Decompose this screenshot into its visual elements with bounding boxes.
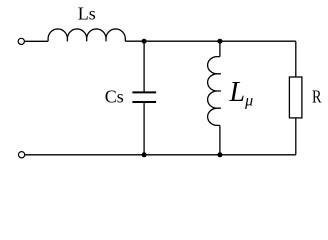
terminal (bottom-left input): [19, 152, 25, 158]
resistor R: [289, 77, 302, 118]
svg-text:Ls: Ls: [78, 4, 96, 24]
junction node (top, Lmu tap): [217, 39, 222, 44]
svg-text:Cs: Cs: [105, 87, 124, 107]
inductor Ls: [48, 29, 125, 41]
capacitor Cs: [132, 92, 156, 102]
wire (Ls to top-right corner): [125, 40, 295, 42]
wire (top-left terminal to Ls): [25, 40, 48, 42]
wire (bottom rail): [25, 154, 296, 156]
wire (right branch, lower lead): [295, 118, 297, 155]
terminal (top-left input): [18, 38, 24, 44]
wire (Lmu branch, lower lead): [219, 125, 221, 154]
wire (Lmu branch, upper lead): [219, 41, 221, 56]
wire (Cs branch, upper lead): [143, 41, 145, 92]
svg-text:R: R: [312, 87, 322, 107]
junction node (bottom, Lmu tap): [217, 152, 222, 157]
wire (right branch, upper lead): [295, 41, 297, 77]
junction node (top, Cs tap): [142, 39, 147, 44]
wire (Cs branch, lower lead): [143, 102, 145, 155]
inductor Lmu: [208, 57, 221, 126]
junction node (bottom, Cs tap): [142, 152, 147, 157]
